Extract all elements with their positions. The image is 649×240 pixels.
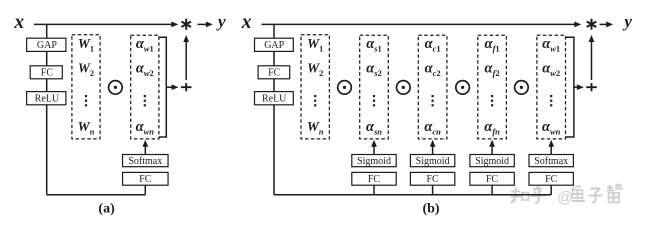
svg-text:FC: FC: [368, 174, 381, 185]
svg-text:FC: FC: [426, 174, 439, 185]
svg-text:FC: FC: [139, 174, 152, 185]
svg-text:FC: FC: [268, 68, 281, 79]
svg-text:FC: FC: [41, 68, 54, 79]
svg-text:FC: FC: [486, 174, 499, 185]
svg-text:@: @: [557, 190, 573, 207]
svg-text:GAP: GAP: [264, 40, 284, 51]
svg-text:Sigmoid: Sigmoid: [416, 156, 450, 167]
svg-text:ReLU: ReLU: [35, 94, 60, 105]
svg-text:GAP: GAP: [37, 40, 57, 51]
svg-text:y: y: [622, 12, 632, 31]
svg-text:FC: FC: [545, 174, 558, 185]
svg-text:(a): (a): [98, 201, 115, 216]
svg-text:y: y: [216, 12, 226, 31]
svg-text:(b): (b): [422, 202, 439, 217]
svg-text:Sigmoid: Sigmoid: [357, 156, 391, 167]
svg-text:x: x: [241, 12, 252, 33]
svg-text:Softmax: Softmax: [534, 156, 568, 167]
svg-text:Sigmoid: Sigmoid: [475, 156, 509, 167]
svg-text:ReLU: ReLU: [262, 94, 287, 105]
svg-text:Softmax: Softmax: [128, 156, 162, 167]
svg-text:x: x: [13, 12, 24, 33]
